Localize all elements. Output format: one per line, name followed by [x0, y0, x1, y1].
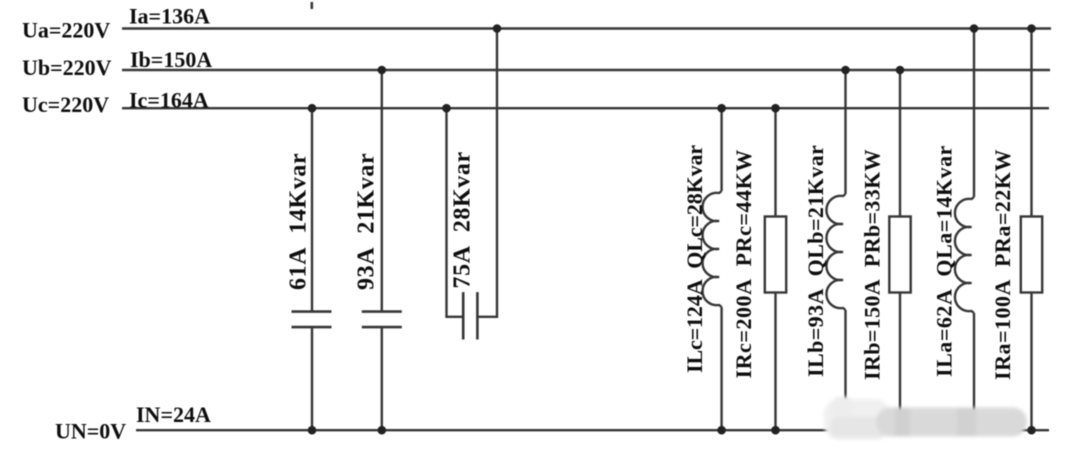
svg-text:Ua=220V: Ua=220V [22, 18, 110, 43]
stray mark [311, 2, 314, 9]
wire capacitor C2 branch lower [381, 327, 383, 430]
wire inductor La branch upper [973, 29, 975, 198]
wire capacitor C3 left leg [447, 108, 464, 317]
wire resistor Rc branch upper [774, 108, 776, 216]
junction dot C3 left top [442, 104, 451, 113]
svg-text:ILb=93A QLb=21Kvar: ILb=93A QLb=21Kvar [803, 145, 828, 377]
junction dot Rb top [896, 66, 905, 75]
inductor La coil [955, 197, 974, 313]
capacitor C2 top plate [362, 310, 402, 313]
svg-text:75A 28Kvar: 75A 28Kvar [450, 151, 476, 288]
wire inductor Lc branch upper [720, 108, 722, 191]
wire capacitor C3 right leg [477, 29, 497, 317]
wire capacitor C1 branch lower [311, 327, 313, 430]
svg-text:Uc=220V: Uc=220V [22, 92, 109, 117]
svg-text:Ic=164A: Ic=164A [129, 87, 209, 112]
wire capacitor C2 branch upper [381, 70, 383, 312]
wire phase C bus [122, 107, 1049, 109]
wire resistor Rc branch lower [774, 293, 776, 431]
capacitor C2 bottom plate [362, 326, 402, 329]
junction dot Rc bottom [771, 426, 780, 435]
wire neutral bus [136, 429, 1049, 431]
svg-text:Ib=150A: Ib=150A [130, 47, 212, 72]
svg-text:61A 14Kvar: 61A 14Kvar [286, 153, 312, 290]
svg-text:93A 21Kvar: 93A 21Kvar [354, 153, 380, 290]
junction dot Lc top [717, 104, 726, 113]
wire resistor Ra branch lower [1030, 293, 1032, 431]
junction dot Lb top [841, 66, 850, 75]
svg-text:Ub=220V: Ub=220V [22, 55, 112, 80]
capacitor C1 bottom plate [292, 326, 332, 329]
wire phase A bus [122, 27, 1051, 29]
svg-text:ILc=124A QLc=28Kvar: ILc=124A QLc=28Kvar [682, 145, 707, 373]
inductor Lc coil [703, 191, 722, 307]
junction dot La top [970, 24, 979, 33]
wire inductor La branch lower [973, 313, 975, 430]
junction dot Ra top [1027, 24, 1036, 33]
resistor Rc body [765, 217, 786, 293]
wire inductor Lb branch upper [844, 70, 846, 194]
svg-text:Ia=136A: Ia=136A [129, 3, 210, 28]
svg-text:IRc=200A PRc=44KW: IRc=200A PRc=44KW [731, 149, 756, 378]
wire inductor Lc branch lower [720, 307, 722, 430]
capacitor C3 right plate [476, 292, 479, 339]
wire resistor Rb branch lower [899, 293, 901, 431]
wire capacitor C1 branch upper [311, 108, 313, 311]
junction dot C2 top [378, 66, 387, 75]
junction dot Lc bottom [717, 426, 726, 435]
junction dot Rc top [771, 104, 780, 113]
junction dot C3 right top [493, 24, 502, 33]
junction dot C2 bottom [378, 426, 387, 435]
resistor Rb body [889, 217, 910, 293]
svg-text:IRb=150A PRb=33KW: IRb=150A PRb=33KW [860, 149, 885, 380]
wire resistor Rb branch upper [899, 70, 901, 217]
wire phase B bus [122, 69, 1050, 71]
svg-text:IRa=100A PRa=22KW: IRa=100A PRa=22KW [990, 149, 1015, 380]
wire inductor Lb branch lower [844, 310, 846, 430]
capacitor C3 left plate [462, 292, 465, 339]
svg-text:ILa=62A QLa=14Kvar: ILa=62A QLa=14Kvar [932, 145, 957, 377]
inductor Lb coil [826, 194, 845, 310]
svg-text:UN=0V: UN=0V [55, 419, 126, 444]
junction dot Ra bottom [1027, 426, 1036, 435]
capacitor C1 top plate [292, 310, 332, 313]
wire resistor Ra branch upper [1030, 29, 1032, 217]
junction dot C1 bottom [308, 426, 317, 435]
svg-text:IN=24A: IN=24A [136, 402, 211, 427]
junction dot C1 top [308, 104, 317, 113]
resistor Ra body [1021, 217, 1042, 293]
